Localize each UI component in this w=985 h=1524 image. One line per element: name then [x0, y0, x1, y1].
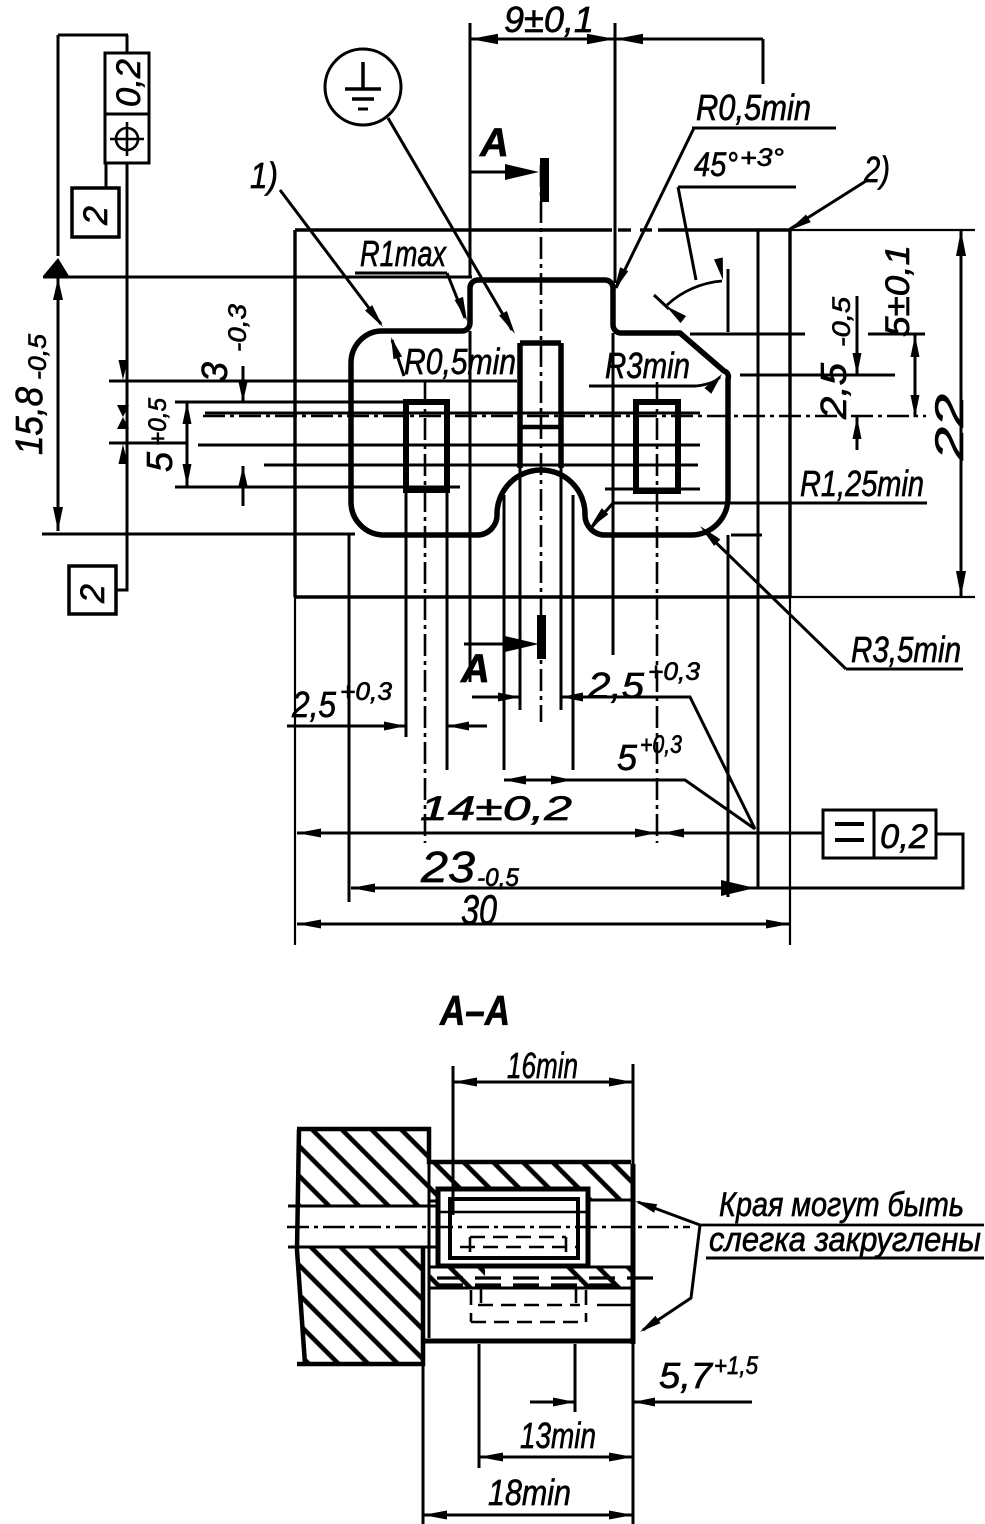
left slot centerline	[424, 382, 427, 843]
thin extension lines horizontal	[43, 276, 472, 279]
svg-text:2: 2	[74, 584, 112, 604]
right slot centerline	[656, 382, 659, 843]
svg-text:23: 23	[420, 843, 476, 892]
well back wall	[428, 1162, 431, 1338]
svg-text:0,2: 0,2	[880, 818, 928, 856]
svg-text:0,2: 0,2	[110, 59, 148, 107]
right pin slot	[636, 402, 678, 491]
section mark A bottom	[464, 643, 533, 646]
dimension 15,8-0,5 left	[58, 34, 128, 37]
dimension 2,5-0,5 right rotated	[856, 296, 859, 375]
svg-text:45°: 45°	[694, 146, 738, 184]
hidden slot dashes lower	[470, 1290, 473, 1322]
svg-text:5,7: 5,7	[659, 1355, 714, 1396]
dimension 5+-0,1 right rotated	[914, 335, 917, 417]
datum connector line	[116, 163, 127, 590]
body edge extension lines	[790, 229, 975, 231]
dimension 18min	[423, 1514, 633, 1517]
svg-text:-0,5: -0,5	[24, 334, 52, 380]
svg-text:3: 3	[194, 362, 235, 382]
svg-text:2,5: 2,5	[587, 665, 645, 706]
svg-text:+0,3: +0,3	[340, 678, 392, 706]
svg-text:A: A	[479, 121, 509, 165]
dimension 5+0,3	[504, 779, 573, 782]
small dims on datum line	[109, 442, 188, 445]
vertical centerline	[540, 165, 543, 722]
left pin slot	[406, 402, 447, 490]
datum box 2 lower	[69, 566, 116, 614]
plug body rectangle in section	[438, 1189, 588, 1266]
hidden slot dashes upper	[470, 1236, 566, 1239]
left wall block hatched	[297, 1129, 631, 1206]
dimension 2,5+0,3 centre	[472, 696, 520, 699]
earth slot	[520, 340, 561, 346]
dimension 9+-0,1	[470, 38, 763, 41]
label 45 degrees chamfer	[678, 186, 796, 189]
svg-text:Края могут быть: Края могут быть	[719, 1186, 964, 1224]
svg-text:R1max: R1max	[360, 233, 448, 274]
section extension lines	[452, 1066, 455, 1215]
plug face outline 23x15.8	[351, 280, 728, 535]
svg-text:5±0,1: 5±0,1	[879, 245, 917, 337]
lower wall block hatched	[297, 1247, 423, 1364]
label 2)	[790, 181, 866, 229]
svg-text:18min: 18min	[488, 1472, 571, 1513]
svg-text:14±0,2: 14±0,2	[420, 790, 572, 828]
top wall bottom edge	[429, 1200, 448, 1203]
svg-text:2,5: 2,5	[813, 362, 854, 420]
dimension 14+-0,2 and frame leader	[297, 832, 823, 835]
section centerline	[287, 1226, 690, 1229]
face right edge	[631, 1164, 636, 1344]
label R1,25min	[613, 502, 927, 505]
dimension 16min	[453, 1081, 633, 1084]
section mark A top	[470, 171, 533, 174]
svg-text:+0,5: +0,5	[144, 398, 172, 446]
label R3,5min	[846, 668, 963, 671]
bottom hatched band	[429, 1267, 485, 1288]
svg-text:слегка закруглены: слегка закруглены	[709, 1221, 981, 1259]
svg-text:R3,5min: R3,5min	[851, 629, 961, 670]
svg-text:16min: 16min	[507, 1045, 578, 1086]
label R0,5min left	[392, 340, 404, 376]
dimension 3-0,3	[242, 366, 245, 402]
svg-text:-0,5: -0,5	[828, 297, 856, 347]
pin channel	[288, 1205, 438, 1208]
svg-text:15,8: 15,8	[9, 387, 51, 455]
svg-text:R0,5min: R0,5min	[404, 341, 516, 382]
svg-text:A: A	[460, 647, 490, 691]
inner slot rectangle	[450, 1199, 578, 1258]
svg-text:+0,3: +0,3	[640, 731, 682, 759]
svg-text:+3°: +3°	[740, 144, 784, 172]
svg-text:13min: 13min	[520, 1415, 596, 1456]
svg-text:R1,25min: R1,25min	[800, 463, 924, 504]
svg-text:+0,3: +0,3	[648, 658, 700, 686]
earth symbol circle	[325, 49, 401, 125]
dimension 23-0,5	[351, 834, 963, 888]
dimension 5+0,5	[186, 402, 189, 486]
svg-text:+1,5: +1,5	[714, 1352, 758, 1380]
svg-text:R3min: R3min	[605, 345, 690, 386]
svg-text:5: 5	[139, 451, 180, 472]
svg-text:22: 22	[928, 394, 972, 461]
parallelism tolerance frame 0,2	[823, 810, 936, 858]
tolerance frame position 0,2 top left	[105, 53, 149, 163]
dimension 30	[297, 923, 790, 926]
bottom wall bottom edge	[423, 1339, 633, 1344]
svg-text:R0,5min: R0,5min	[696, 87, 811, 128]
horizontal centerline	[203, 415, 926, 418]
svg-text:1): 1)	[250, 155, 278, 196]
dimension 22 right rotated	[960, 230, 963, 597]
svg-text:2,5: 2,5	[291, 684, 337, 725]
kraja leaders	[638, 1202, 700, 1225]
label shelf line	[700, 1224, 984, 1227]
socket body outline 30x22	[295, 228, 612, 231]
earth leader	[388, 118, 512, 330]
datum box 2 upper	[105, 163, 108, 188]
svg-text:5: 5	[617, 737, 638, 778]
hidden line rows	[437, 1276, 658, 1279]
svg-text:2): 2)	[863, 149, 890, 190]
svg-text:30: 30	[461, 886, 497, 933]
label R0,5min top right	[692, 127, 836, 130]
svg-text:-0,3: -0,3	[224, 304, 252, 352]
dimension 13min	[479, 1456, 633, 1459]
label 1)	[280, 190, 381, 324]
label R3min	[589, 385, 696, 388]
thin extension lines vertical	[469, 23, 472, 278]
svg-text:A–A: A–A	[439, 987, 510, 1034]
label R1max	[355, 272, 447, 275]
dimension 2,5+0,3 left bottom	[287, 725, 406, 728]
dimension 5,7+1,5	[530, 1401, 575, 1404]
svg-text:9±0,1: 9±0,1	[504, 0, 594, 40]
svg-text:2: 2	[77, 206, 115, 226]
